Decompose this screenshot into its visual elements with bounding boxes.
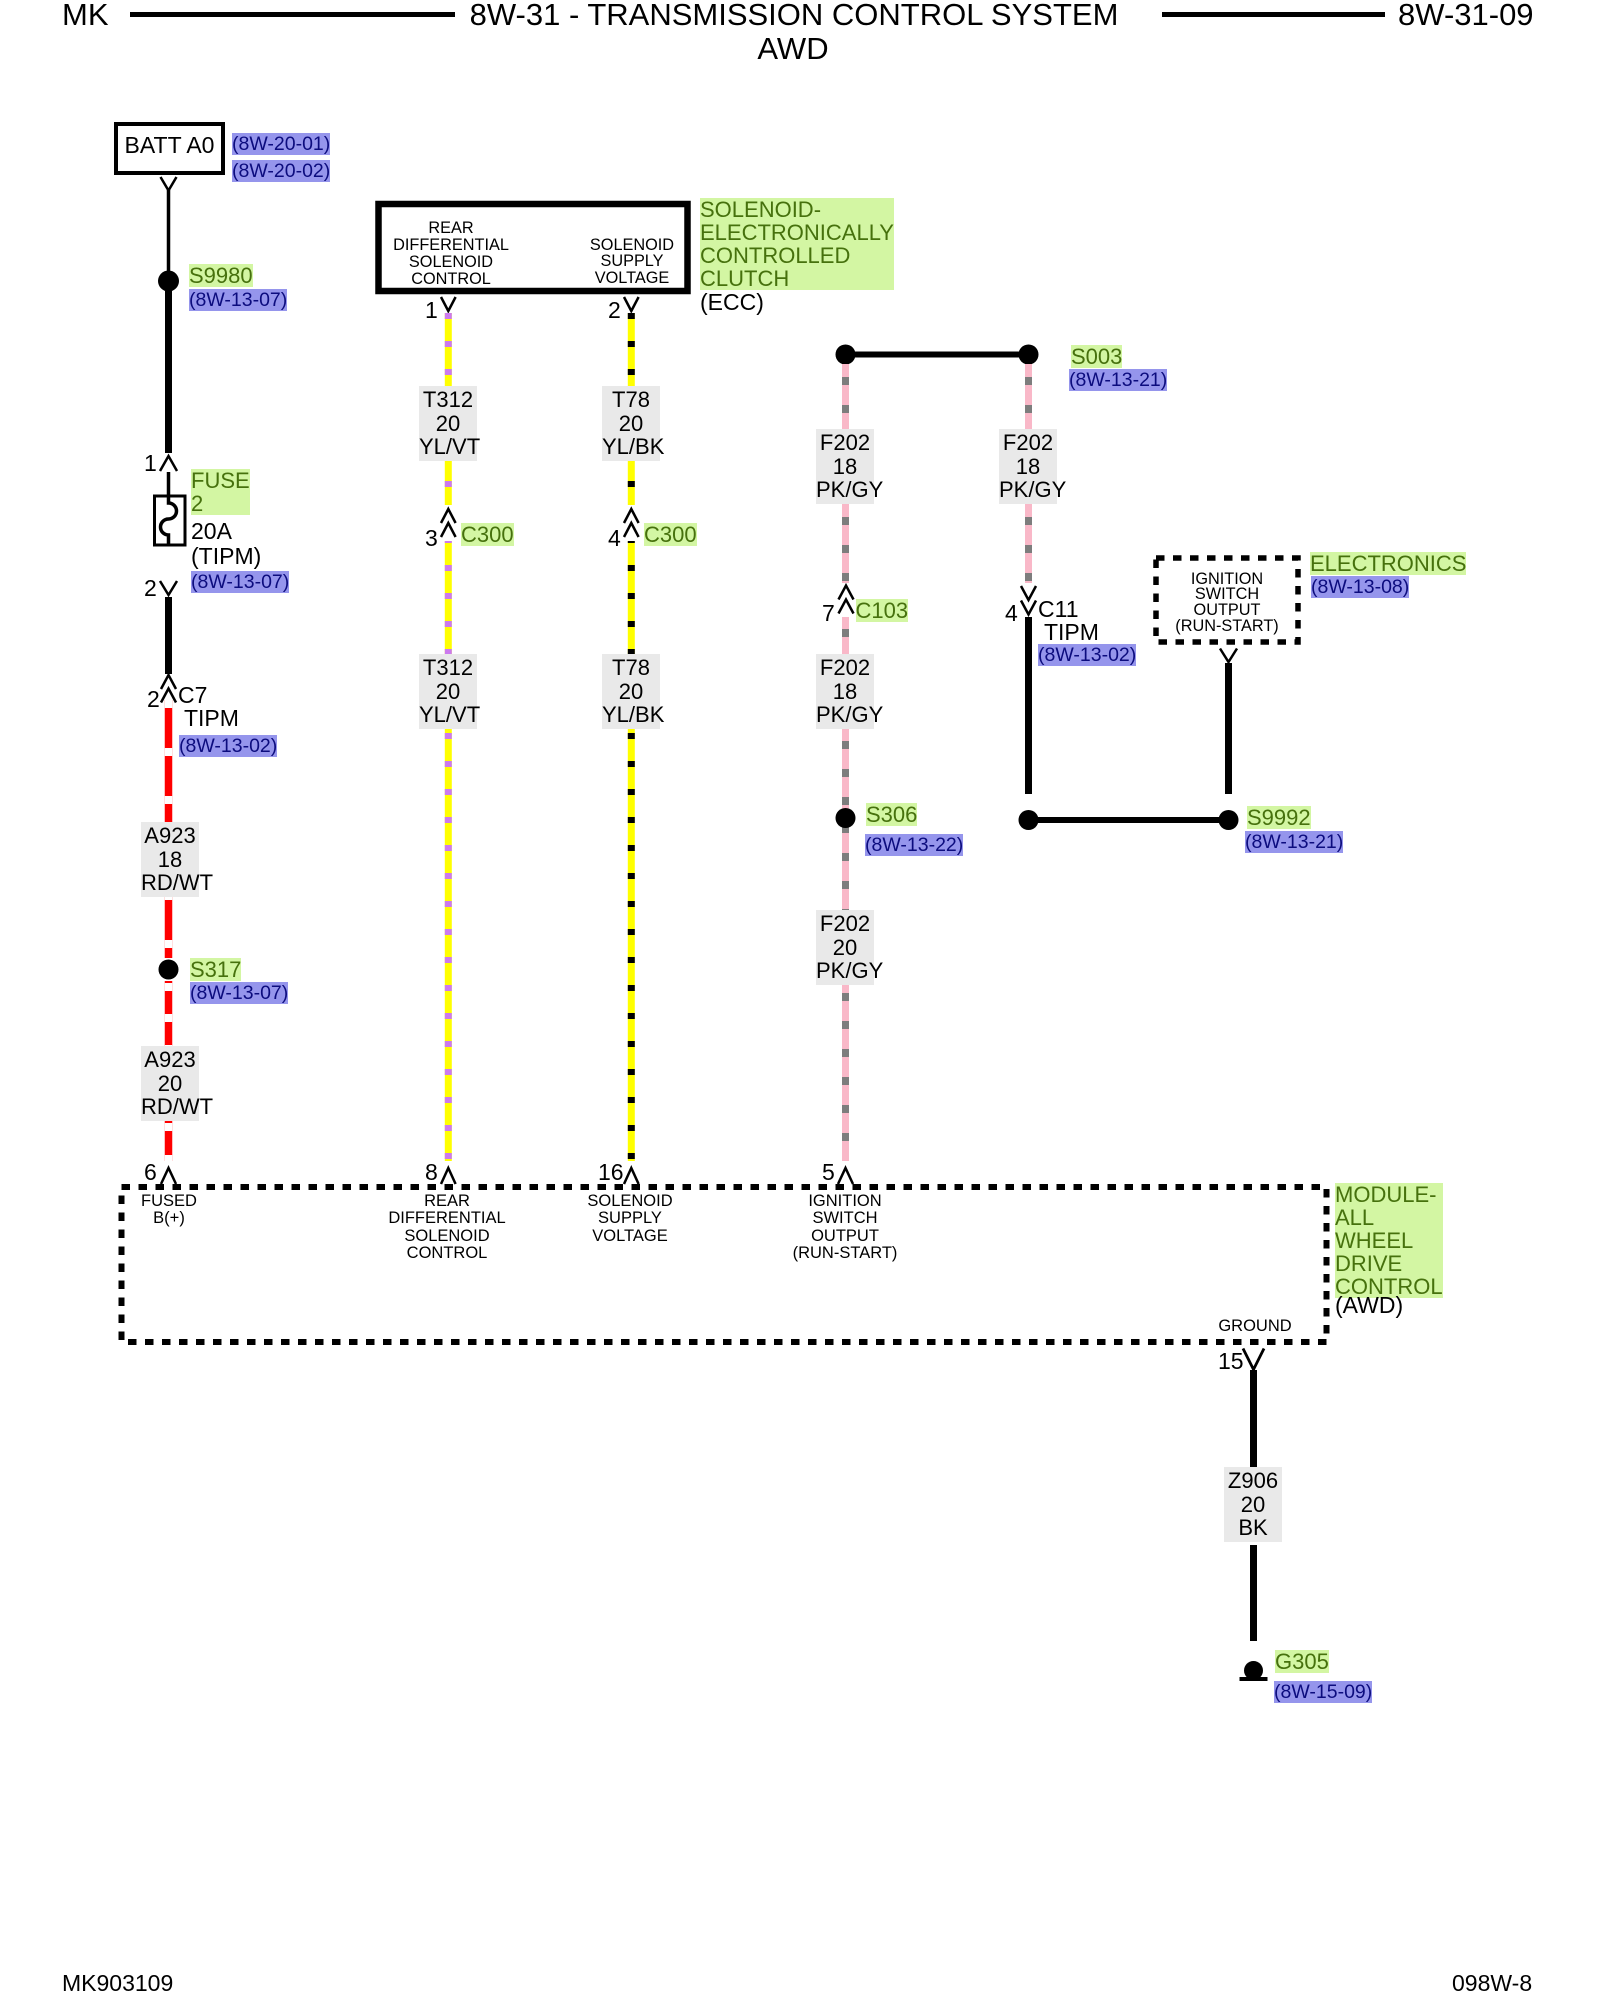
footer right 098W-8 — [1452, 1972, 1532, 1995]
fuse pin 2 connector arrow — [160, 581, 177, 595]
ground G305 label — [1275, 1650, 1329, 1673]
wire T78 20 YL/BK (yellow with black stripe) — [628, 313, 635, 1161]
wire label F202 18 PK/GY left lower — [816, 654, 874, 729]
wire Z906 20 BK lower — [1250, 1545, 1257, 1641]
wire label A923 18 RD/WT — [141, 822, 199, 897]
splice S317 — [159, 960, 179, 980]
wire label T78 20 YL/BK lower — [602, 654, 660, 729]
module pin label IGNITION SWITCH OUTPUT (RUN-START) — [793, 1193, 898, 1263]
ref (8W-15-09) G305 — [1274, 1681, 1372, 1703]
ref (8W-13-21) S003 — [1069, 369, 1167, 391]
wire into fuse — [167, 472, 171, 504]
module pin number 16 — [598, 1161, 624, 1184]
battery feed B(+) box BATT A0 — [116, 124, 223, 173]
ref (8W-13-21) S9992 — [1245, 831, 1343, 853]
ref (8W-20-01) — [232, 133, 330, 155]
fuse F2 body — [155, 496, 186, 545]
module pin label GROUND — [1218, 1318, 1291, 1336]
ECC pin number 2 — [608, 299, 621, 322]
electronics component label — [1310, 552, 1466, 575]
connector C7 pin number 2 — [147, 688, 160, 711]
module pin 5 male connector arrow — [838, 1168, 853, 1184]
ref (8W-13-22) S306 — [865, 834, 963, 856]
ECC box left pin label — [393, 220, 509, 288]
splice S306 — [836, 808, 856, 828]
ref (8W-20-02) — [232, 160, 330, 182]
header subtitle AWD — [757, 33, 828, 64]
splice S9992 bus bar — [1029, 817, 1229, 823]
ref (8W-13-08) electronics — [1311, 576, 1409, 598]
wire T312 20 YL/VT (yellow with violet stripe) — [445, 313, 452, 1161]
ECC box right pin label — [590, 237, 674, 288]
fuse rating label — [191, 519, 261, 569]
wire A923 20 RD/WT (red with white stripe) — [165, 981, 173, 1161]
wire label F202 18 PK/GY left upper — [816, 429, 874, 504]
header title — [470, 0, 1119, 30]
connector C103 label — [856, 599, 909, 622]
connector C300 pin number 3 — [425, 527, 438, 550]
module pin number 8 — [425, 1161, 438, 1184]
module pin 16 male connector arrow — [624, 1168, 639, 1184]
module pin number 6 — [144, 1161, 157, 1184]
wire label Z906 20 BK — [1224, 1467, 1282, 1542]
header label MK — [62, 0, 109, 30]
ECC pin number 1 — [425, 299, 438, 322]
in-line connector C300 pin 3 (double chevron) — [441, 509, 456, 523]
module pin 6 male connector arrow — [161, 1168, 176, 1184]
splice S9980 — [158, 271, 179, 292]
pin connector V below BATT A0 — [161, 177, 177, 191]
ECC component label — [700, 198, 894, 290]
wire F202 18 PK/GY left (pink with gray stripe) — [842, 364, 849, 1161]
wire C11 to splice S9992 — [1025, 617, 1032, 794]
electronics box label — [1175, 572, 1278, 635]
splice S306 label — [866, 803, 917, 826]
module pin number 15 — [1218, 1350, 1244, 1373]
splice S003 label — [1071, 345, 1122, 368]
ref (8W-13-07) fuse — [191, 571, 289, 593]
module pin label FUSED B(+) — [141, 1193, 197, 1228]
fuse pin number 1 — [144, 452, 157, 475]
ground G305 symbol — [1244, 1661, 1263, 1680]
ECC pin 1 connector V — [441, 297, 456, 311]
wire fuse to connector C7 — [165, 597, 172, 674]
wire F202 18 PK/GY right (pink with gray stripe) — [1025, 364, 1032, 583]
connector C103 pin number 7 — [822, 602, 835, 625]
splice S317 label — [190, 958, 241, 981]
wire BATT A0 to splice S9980 — [167, 190, 171, 271]
ref (8W-13-07) S317 — [190, 982, 288, 1004]
wire A923 18 RD/WT (red with white stripe) — [165, 700, 173, 958]
fuse pin 1 male connector arrow — [160, 456, 177, 471]
ref (8W-13-02) C11 — [1038, 644, 1136, 666]
footer left MK903109 — [62, 1972, 173, 1995]
wire gap at connector C300 pin 4 — [627, 505, 637, 541]
BATT A0 label — [125, 134, 215, 157]
wire Z906 20 BK upper — [1250, 1370, 1257, 1467]
connector C300 label right — [644, 523, 697, 546]
wire gap at connector C103 pin 7 — [841, 583, 851, 617]
wire S9980 to fuse pin 1 — [165, 291, 172, 453]
module pin number 5 — [822, 1161, 835, 1184]
wire label T78 20 YL/BK upper — [602, 386, 660, 461]
module pin label SOLENOID SUPPLY VOLTAGE — [587, 1193, 672, 1246]
in-line connector C7 pin 2 (double chevron) — [161, 675, 176, 689]
ECC pin 2 connector V — [624, 297, 639, 311]
wire label T312 20 YL/VT lower — [419, 654, 477, 729]
header rule left — [130, 12, 455, 17]
module pin 15 connector V — [1243, 1349, 1264, 1370]
module pin 8 male connector arrow — [441, 1168, 456, 1184]
connector C11 pin number 4 — [1005, 602, 1018, 625]
splice S9980 label — [189, 264, 253, 287]
ECC abbreviation — [700, 291, 764, 314]
wire label A923 20 RD/WT — [141, 1046, 199, 1121]
splice S003 bus bar — [846, 352, 1029, 358]
in-line connector C103 pin 7 (double chevron) — [839, 586, 854, 600]
electronics dashed box — [1156, 558, 1298, 642]
fuse F2 element squiggle — [161, 496, 177, 545]
module component label — [1335, 1183, 1443, 1298]
ref (8W-13-07) — [189, 289, 287, 311]
electronics box pin connector V — [1220, 649, 1237, 663]
connector C7 label — [178, 684, 239, 730]
in-line connector C11 pin 4 (double chevron down) — [1021, 586, 1036, 600]
module abbreviation (AWD) — [1335, 1294, 1403, 1317]
wire label T312 20 YL/VT upper — [419, 386, 477, 461]
connector C300 label left — [461, 523, 514, 546]
wire label F202 20 PK/GY — [816, 910, 874, 985]
module AWD dashed box — [122, 1187, 1327, 1342]
header page number — [1398, 0, 1534, 30]
connector C300 pin number 4 — [608, 527, 621, 550]
in-line connector C300 pin 4 (double chevron) — [624, 509, 639, 523]
header rule right — [1162, 12, 1385, 17]
wire electronics to splice S9992 — [1225, 663, 1232, 794]
connector C11 label — [1038, 598, 1099, 644]
splice S9992 label — [1247, 806, 1311, 829]
solenoid ECC box — [379, 204, 688, 291]
module pin label REAR DIFFERENTIAL SOLENOID CONTROL — [388, 1193, 505, 1263]
wire gap at connector C300 pin 3 — [444, 505, 454, 541]
wire label F202 18 PK/GY right — [999, 429, 1057, 504]
fuse name label — [191, 469, 250, 515]
fuse pin number 2 — [144, 577, 157, 600]
ref (8W-13-02) C7 — [179, 735, 277, 757]
